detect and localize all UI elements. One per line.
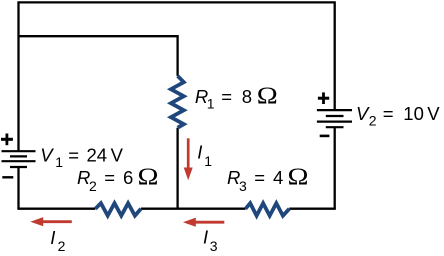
wire: bottom wire left segment: [17, 208, 95, 210]
svg-text:I: I: [50, 227, 55, 248]
wire: inner top wire from left border to R1 branch: [19, 36, 178, 76]
plus sign of V2: [318, 92, 329, 104]
svg-text:10: 10: [403, 103, 424, 124]
svg-text:6: 6: [123, 167, 133, 188]
svg-text:Ω: Ω: [138, 165, 159, 191]
svg-text:=: =: [383, 103, 394, 124]
svg-text:4: 4: [273, 167, 283, 188]
current arrow I1: [184, 138, 193, 180]
current arrow I2: [30, 217, 72, 226]
svg-text:3: 3: [210, 238, 218, 254]
current arrow I3: [183, 218, 224, 227]
wire: R1 branch below resistor to bottom node: [176, 128, 178, 209]
svg-text:=: =: [68, 145, 79, 166]
label I2: [50, 227, 65, 254]
svg-text:=: =: [254, 167, 265, 188]
label I3: [203, 227, 218, 255]
svg-text:V: V: [427, 103, 440, 124]
label V1 = 24 V: [40, 145, 123, 171]
svg-text:1: 1: [204, 153, 212, 169]
minus sign of V1: [2, 176, 13, 178]
svg-text:Ω: Ω: [257, 83, 278, 109]
resistor R1: [171, 76, 184, 128]
svg-text:8: 8: [242, 86, 252, 107]
svg-text:2: 2: [89, 178, 97, 194]
svg-text:24: 24: [87, 145, 108, 166]
svg-text:3: 3: [239, 178, 247, 194]
svg-text:I: I: [197, 142, 202, 163]
svg-text:=: =: [104, 167, 115, 188]
label R3 = 4 ohm: [227, 165, 309, 195]
plus sign of V1: [1, 134, 13, 146]
label V2 = 10 V: [356, 103, 440, 129]
battery V1: [2, 151, 36, 167]
svg-text:V: V: [111, 145, 124, 166]
resistor R3: [246, 203, 290, 216]
svg-text:2: 2: [58, 238, 66, 254]
minus sign of V2: [320, 135, 330, 138]
svg-text:I: I: [203, 227, 208, 248]
wire: left wire below battery V1: [17, 167, 19, 209]
resistor R2: [95, 203, 141, 216]
svg-text:V: V: [40, 145, 54, 166]
wire: right wire below battery V2: [334, 127, 336, 209]
wire: bottom wire right segment: [289, 208, 336, 210]
wire: outer loop top border with left and right drops: [19, 2, 335, 151]
svg-text:1: 1: [55, 154, 63, 170]
svg-text:2: 2: [369, 113, 377, 129]
label R1 = 8 ohm: [195, 83, 278, 111]
svg-text:=: =: [221, 86, 232, 107]
svg-text:1: 1: [207, 96, 215, 112]
label R2 = 6 ohm: [77, 165, 159, 195]
svg-text:Ω: Ω: [288, 165, 309, 191]
wire: bottom wire middle segment: [141, 208, 246, 210]
label I1: [197, 142, 212, 169]
battery V2: [317, 110, 352, 127]
